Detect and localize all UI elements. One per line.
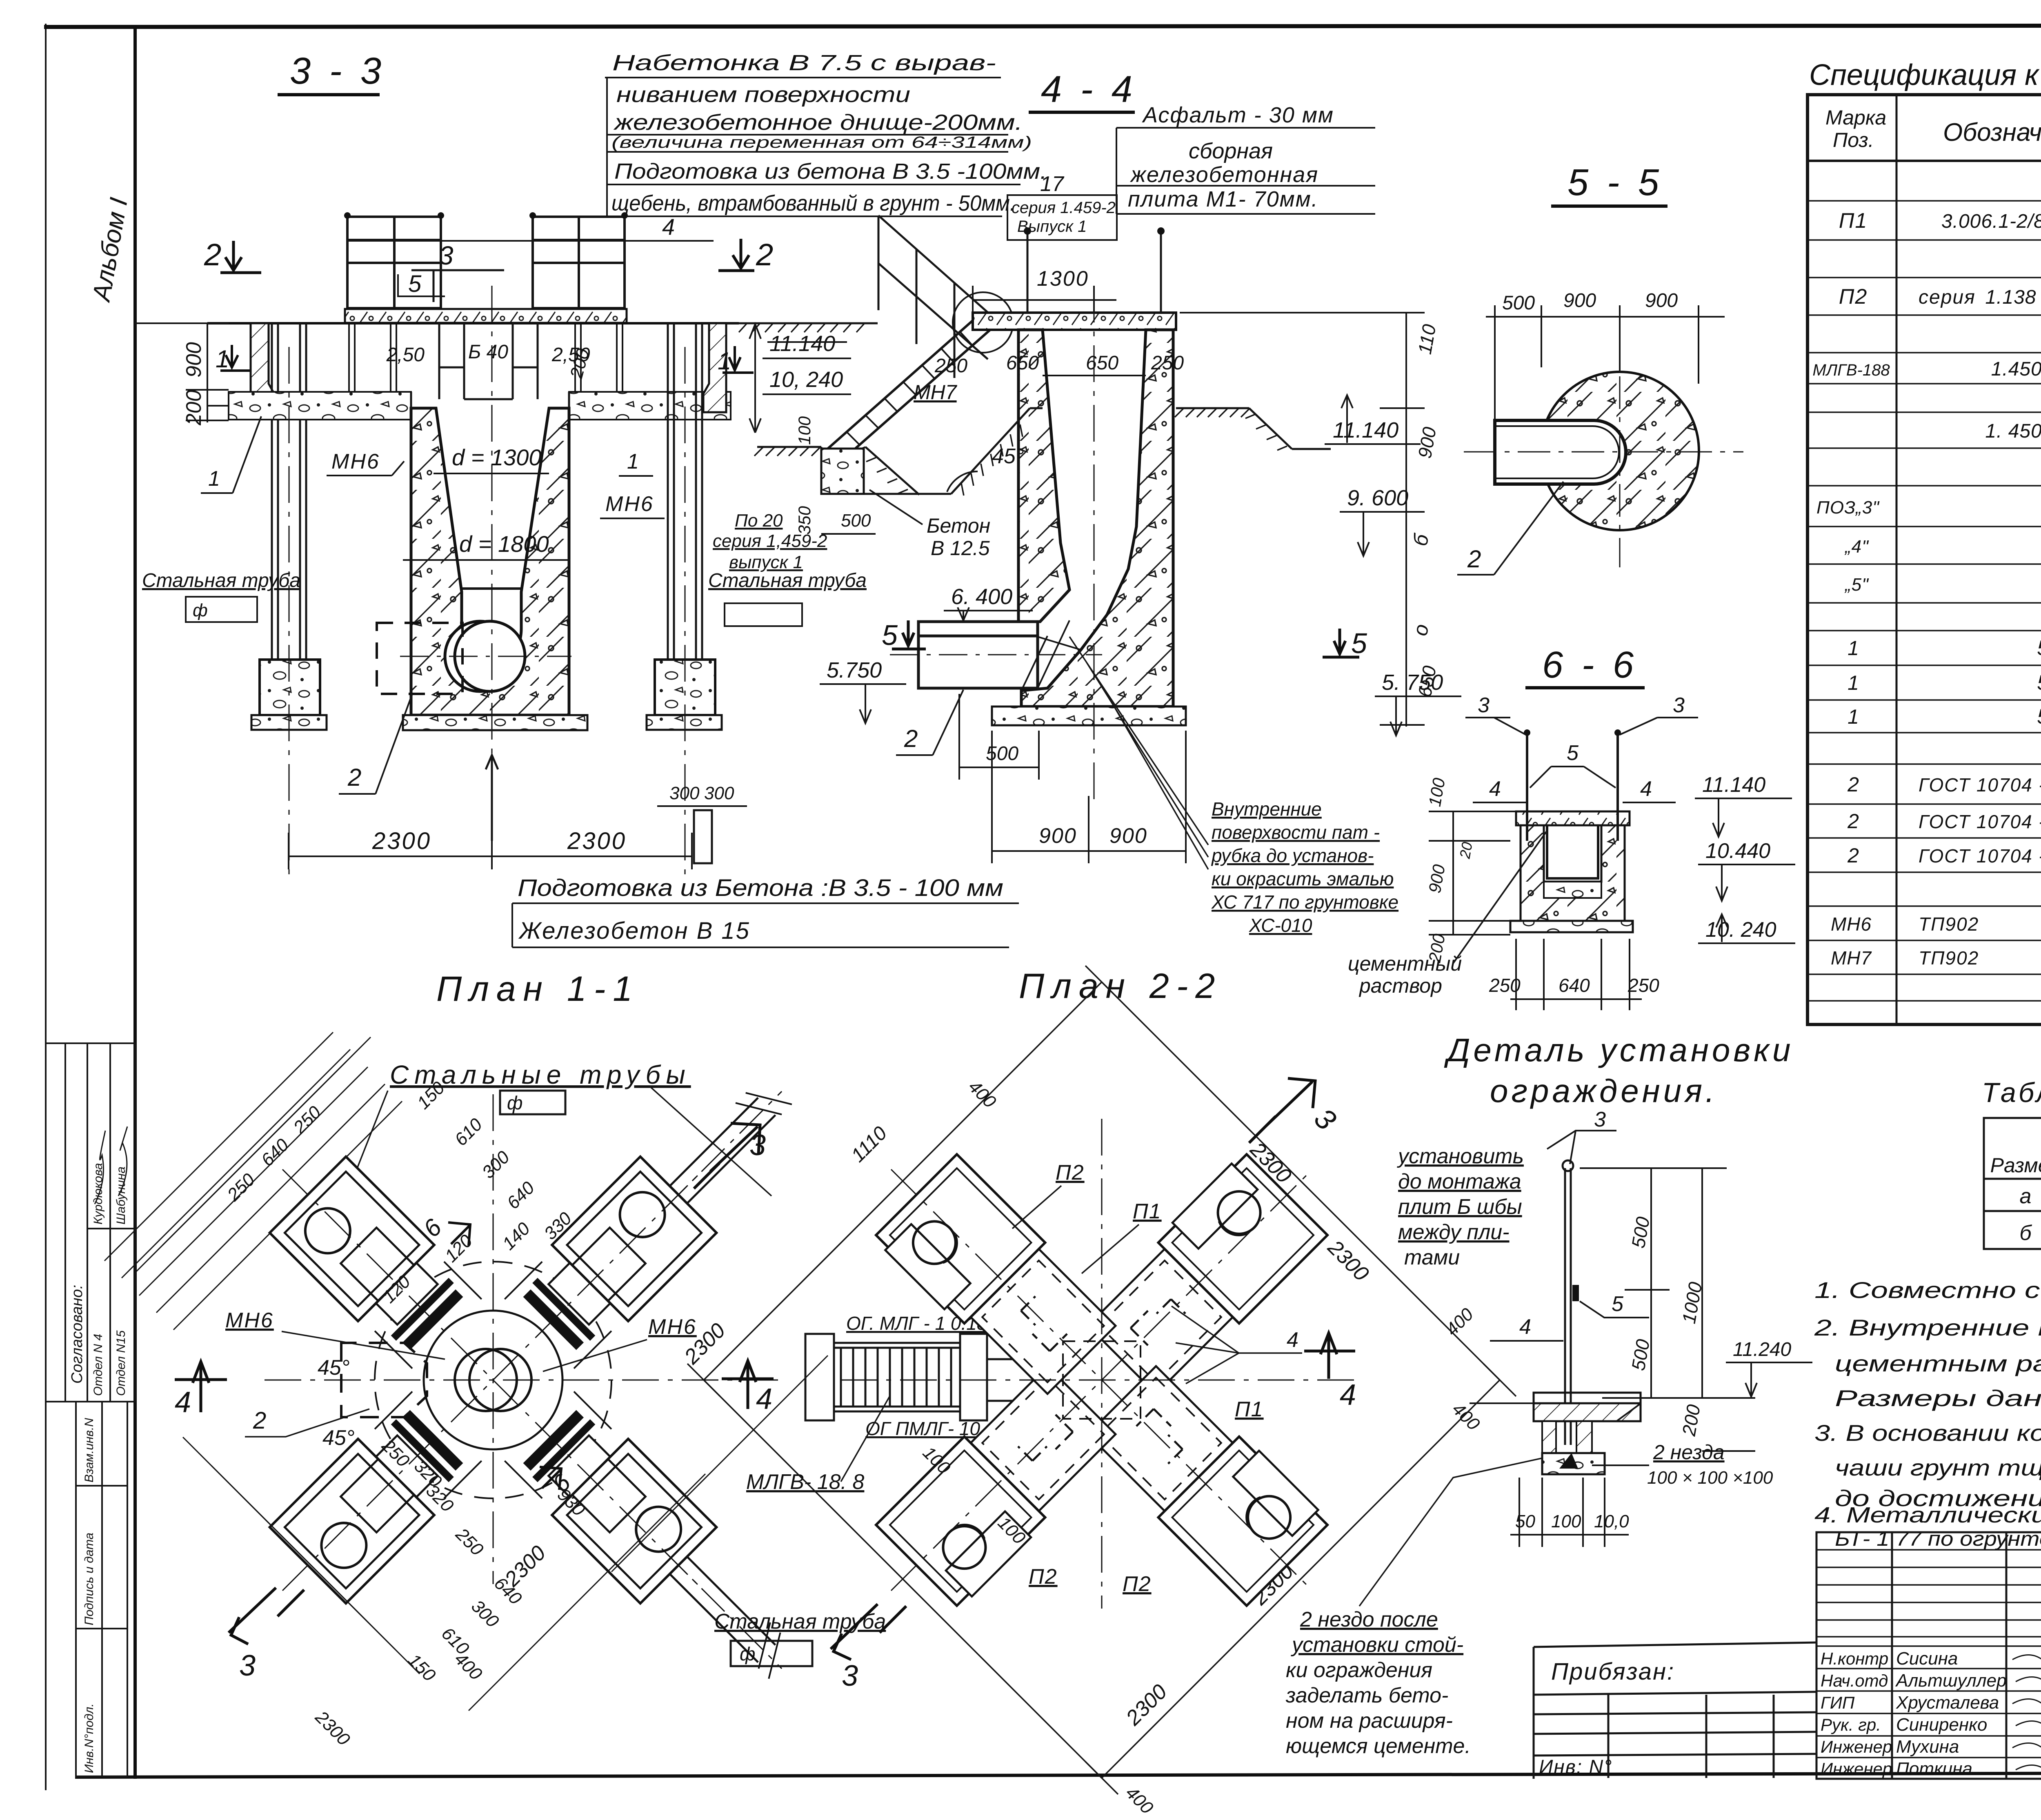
svg-text:„5": „5": [1844, 575, 1869, 595]
svg-text:2 нездо после: 2 нездо после: [1300, 1608, 1438, 1631]
svg-text:Обозначение: Обозначение: [1943, 118, 2041, 147]
fence lower block: [1542, 1421, 1556, 1453]
anchor rods below post boxes: [349, 323, 623, 393]
left pipe: [272, 323, 306, 691]
svg-text:250: 250: [1151, 352, 1184, 374]
svg-text:МН7: МН7: [914, 381, 958, 404]
svg-text:1: 1: [1848, 637, 1859, 660]
svg-text:Внутренние: Внутренние: [1212, 798, 1322, 820]
central opening in slab: [439, 323, 538, 399]
svg-text:Асфальт - 30 мм: Асфальт - 30 мм: [1142, 103, 1334, 127]
svg-text:П1: П1: [1839, 209, 1868, 233]
svg-text:б: б: [1409, 532, 1433, 548]
svg-text:цементным раствором сост: цементным раствором состава 1:2 толщиной…: [1835, 1351, 2041, 1376]
svg-text:П1: П1: [1133, 1200, 1162, 1223]
svg-text:ф: ф: [507, 1092, 522, 1113]
svg-text:3: 3: [1594, 1108, 1606, 1131]
inclined channel band: [828, 315, 991, 461]
svg-text:6 - 6: 6 - 6: [1542, 644, 1638, 686]
right railing post box: [533, 217, 625, 323]
spout axis: [890, 654, 1102, 656]
svg-text:1: 1: [1848, 705, 1859, 728]
svg-text:1300: 1300: [1037, 267, 1089, 291]
svg-text:500: 500: [1627, 1215, 1654, 1250]
5-5 hatched circle: [1541, 372, 1699, 530]
svg-text:2,50: 2,50: [386, 344, 425, 366]
svg-text:серия 1.459-2: серия 1.459-2: [1012, 199, 1116, 217]
svg-text:2: 2: [204, 238, 221, 272]
svg-text:250: 250: [934, 355, 967, 377]
svg-text:ХС-010: ХС-010: [1249, 915, 1312, 936]
svg-text:По 20: По 20: [735, 511, 783, 531]
svg-text:ф: ф: [740, 1643, 755, 1664]
svg-text:1: 1: [718, 347, 731, 375]
svg-text:Подготовка из бетона В 3.5: Подготовка из бетона В 3.5 -100мм.: [614, 159, 1047, 184]
top slab hatched band: [345, 309, 627, 323]
svg-text:Марка: Марка: [1825, 106, 1886, 129]
svg-text:5. 900 - 2: 5. 900 - 2: [2037, 636, 2041, 660]
svg-text:300: 300: [467, 1596, 503, 1631]
svg-text:Прибязан:: Прибязан:: [1551, 1658, 1675, 1685]
svg-text:ХС 717 по грунтовке: ХС 717 по грунтовке: [1211, 891, 1398, 913]
plan 1-1 dim fan NW: [0, 0, 1, 1]
svg-text:б: б: [2019, 1221, 2032, 1245]
svg-text:Сисина: Сисина: [1896, 1649, 1958, 1669]
svg-text:4: 4: [1287, 1328, 1298, 1352]
svg-text:ф: ф: [193, 600, 208, 620]
svg-text:400: 400: [965, 1076, 1000, 1112]
svg-text:4: 4: [662, 214, 675, 240]
svg-text:10.440: 10.440: [1705, 839, 1770, 863]
svg-text:ТП902: ТП902: [1919, 947, 1979, 969]
svg-text:11.140: 11.140: [769, 331, 835, 356]
center axis 4-4: [1094, 286, 1095, 800]
svg-text:ном на расширя-: ном на расширя-: [1286, 1709, 1453, 1733]
spec table grid: [1808, 95, 2041, 1024]
svg-text:200: 200: [182, 390, 206, 426]
svg-text:2: 2: [1847, 844, 1859, 867]
left outer wall hatched: [251, 323, 274, 412]
svg-text:d = 1800: d = 1800: [459, 531, 549, 557]
svg-text:610: 610: [451, 1114, 486, 1150]
svg-text:650: 650: [1086, 352, 1118, 374]
size table text: [1990, 1122, 2041, 1245]
svg-text:выпуск 1: выпуск 1: [729, 552, 803, 572]
svg-text:d = 1300: d = 1300: [452, 444, 542, 470]
svg-text:установки стой-: установки стой-: [1291, 1633, 1463, 1657]
left dims 900/200: [186, 323, 229, 422]
svg-text:5: 5: [1612, 1292, 1624, 1316]
svg-text:500: 500: [986, 743, 1018, 764]
svg-text:3. В основании консольных ко: 3. В основании консольных конструкций ра…: [1814, 1420, 2041, 1446]
svg-text:500: 500: [1627, 1338, 1654, 1372]
svg-text:250: 250: [289, 1102, 325, 1138]
ground left with pit: [757, 408, 1043, 495]
svg-text:ГОСТ 10704 - 76 *: ГОСТ 10704 - 76 *: [1919, 811, 2041, 832]
svg-text:Альтшуллер: Альтшуллер: [1895, 1671, 2007, 1691]
svg-text:4 - 4: 4 - 4: [1041, 69, 1136, 110]
plan 1-1 arms: [501, 1157, 717, 1372]
under-slab strip left: [229, 392, 411, 420]
svg-text:Инженер: Инженер: [1821, 1737, 1892, 1756]
svg-text:Хрусталева: Хрусталева: [1896, 1693, 1999, 1713]
svg-text:План 2-2: План 2-2: [1019, 967, 1222, 1006]
diagonal axes plan 2-2: [891, 1169, 1312, 1591]
top notes block with underlines: [611, 51, 1047, 216]
stamp table 2: [76, 1402, 127, 1776]
svg-text:Поз.: Поз.: [1833, 129, 1874, 151]
svg-text:ющемся цементе.: ющемся цементе.: [1286, 1734, 1471, 1758]
svg-text:4: 4: [1640, 777, 1652, 801]
svg-text:900: 900: [1645, 290, 1678, 311]
plan 2-2 center cross dashes: [840, 1119, 1363, 1609]
svg-text:5: 5: [1567, 741, 1579, 765]
svg-text:2300: 2300: [372, 828, 431, 854]
svg-text:2: 2: [1847, 810, 1859, 833]
bottom flange: [1510, 921, 1633, 932]
pipe circles: [445, 621, 515, 691]
railing posts on slab: [1027, 233, 1161, 313]
right pipe: [668, 323, 702, 691]
posts: [1527, 735, 1618, 841]
plan 2-2 arms: [1078, 1151, 1327, 1400]
svg-text:а: а: [2020, 1184, 2032, 1208]
svg-text:Набетонка В 7.5 с вырав-: Набетонка В 7.5 с вырав-: [612, 51, 996, 75]
svg-text:400: 400: [1122, 1782, 1157, 1818]
MN7 detail circle: [953, 292, 1013, 353]
fence dims right: [1580, 1168, 1755, 1451]
svg-text:установить: установить: [1397, 1144, 1524, 1168]
interior bottom strip: [1544, 882, 1601, 898]
size table grid: [1984, 1118, 2041, 1249]
svg-text:900: 900: [1109, 824, 1147, 848]
svg-text:между пли-: между пли-: [1398, 1220, 1510, 1244]
funnel hatched mass: [411, 408, 569, 715]
left railing post box: [347, 217, 441, 323]
svg-text:5 - 5: 5 - 5: [1567, 162, 1663, 203]
svg-text:300: 300: [669, 783, 700, 803]
svg-text:МН7: МН7: [1831, 947, 1872, 969]
center axis: [491, 286, 493, 841]
right dim chain: [1180, 313, 1425, 727]
svg-text:ГОСТ 10704 - 76 *: ГОСТ 10704 - 76 *: [1919, 774, 2041, 796]
svg-text:1. 450. 3-3 вып.1: 1. 450. 3-3 вып.1: [1985, 420, 2041, 442]
bottom border: [75, 1772, 2041, 1777]
svg-text:БТ- 1 77 по огрунтовке: БТ- 1 77 по огрунтовке: [1835, 1527, 2041, 1550]
svg-text:640: 640: [503, 1178, 538, 1213]
svg-text:1110: 1110: [847, 1122, 891, 1167]
svg-text:5: 5: [408, 271, 422, 297]
svg-text:(величина переменная от 64÷31: (величина переменная от 64÷314мм): [611, 133, 1032, 151]
svg-text:П2: П2: [1029, 1565, 1058, 1589]
svg-text:раствор: раствор: [1358, 974, 1442, 997]
svg-text:Рук. гр.: Рук. гр.: [1821, 1715, 1881, 1734]
base plate: [992, 707, 1186, 725]
ground lines between sections: [726, 322, 878, 324]
svg-text:ки ограждения: ки ограждения: [1286, 1658, 1432, 1682]
svg-text:2: 2: [756, 238, 773, 272]
svg-text:4: 4: [1519, 1315, 1531, 1339]
svg-text:300: 300: [478, 1147, 514, 1182]
walls: [1521, 825, 1625, 921]
svg-text:ТП902: ТП902: [1919, 913, 1979, 935]
svg-text:4. Металлические конструкци: 4. Металлические конструкции окрасить за…: [1814, 1503, 2041, 1527]
svg-text:П1: П1: [1235, 1398, 1264, 1421]
svg-text:900: 900: [1425, 863, 1449, 895]
svg-text:1: 1: [208, 467, 220, 491]
interior horizontal at pipe niche: [462, 587, 521, 590]
svg-text:Таблица размеров: Таблица размеров: [1982, 1077, 2041, 1108]
svg-text:500: 500: [841, 511, 871, 531]
walls hatched mass: [1018, 330, 1069, 622]
svg-text:до монтажа: до монтажа: [1398, 1170, 1521, 1193]
svg-text:цементный: цементный: [1348, 952, 1462, 975]
svg-text:железобетонное днище-200мм.: железобетонное днище-200мм.: [614, 110, 1023, 135]
svg-text:100: 100: [1425, 776, 1449, 808]
svg-text:2300: 2300: [1323, 1236, 1374, 1286]
svg-text:Б 40: Б 40: [468, 341, 508, 363]
svg-text:4: 4: [1489, 777, 1501, 801]
svg-text:11.240: 11.240: [1733, 1339, 1792, 1360]
svg-text:120: 120: [441, 1231, 476, 1266]
inner frame left vertical: [133, 25, 137, 1779]
base plate under funnel: [403, 715, 587, 730]
svg-text:4: 4: [1340, 1379, 1356, 1411]
svg-text:20: 20: [1456, 841, 1476, 860]
svg-text:3 - 3: 3 - 3: [290, 50, 385, 92]
svg-text:9. 600: 9. 600: [1347, 486, 1408, 510]
svg-text:1.138 -10, вып. 2: 1.138 -10, вып. 2: [1985, 287, 2041, 308]
fence post: [1565, 1168, 1571, 1445]
dashed incoming pipe: [377, 623, 462, 694]
5-5 pipe U: [1495, 420, 1626, 484]
svg-text:2 незда: 2 незда: [1653, 1441, 1725, 1464]
svg-text:2: 2: [1847, 773, 1859, 796]
svg-text:2: 2: [1467, 545, 1481, 573]
svg-text:2: 2: [347, 764, 361, 791]
svg-text:2: 2: [253, 1407, 266, 1434]
svg-text:2. Внутренние поверхности: 2. Внутренние поверхности лотков штукату…: [1814, 1315, 2041, 1340]
svg-text:П2: П2: [1839, 285, 1868, 309]
svg-text:400: 400: [1442, 1304, 1477, 1340]
svg-text:МН6: МН6: [648, 1315, 697, 1339]
svg-text:2300: 2300: [311, 1707, 354, 1750]
svg-text:Отдел N 4: Отдел N 4: [91, 1334, 105, 1396]
pit block: [821, 449, 864, 494]
svg-text:5. 750: 5. 750: [1382, 670, 1443, 695]
plan 1-1 center rings: [265, 1094, 779, 1584]
plan 2-2 diamond dim frame: [687, 966, 1516, 1794]
svg-text:П2: П2: [1056, 1161, 1085, 1184]
pribyazan table: [1534, 1642, 1816, 1779]
svg-text:МН6: МН6: [225, 1309, 274, 1332]
svg-text:45°: 45°: [318, 1356, 350, 1380]
svg-text:11.140: 11.140: [1702, 773, 1765, 797]
svg-text:Альбом I: Альбом I: [87, 196, 133, 304]
svg-text:10,0: 10,0: [1594, 1511, 1629, 1531]
left rotated dims: [1429, 811, 1516, 935]
svg-text:45°: 45°: [992, 444, 1024, 468]
svg-text:Инв.N°подл.: Инв.N°подл.: [82, 1703, 96, 1773]
arrow under base: [486, 755, 498, 841]
svg-text:тами: тами: [1404, 1246, 1460, 1269]
svg-text:45°: 45°: [322, 1426, 355, 1450]
svg-text:Размеры даны б железобе: Размеры даны б железобетоне .: [1835, 1385, 2041, 1411]
svg-text:рубка до установ-: рубка до установ-: [1211, 845, 1374, 866]
svg-text:Инженер: Инженер: [1821, 1759, 1892, 1778]
dim 4 line over posts: [347, 240, 714, 242]
MLGV ladder (west arm of plan 2-2): [805, 1334, 987, 1420]
svg-text:ки окрасить эмалью: ки окрасить эмалью: [1212, 868, 1394, 889]
svg-text:150: 150: [404, 1650, 440, 1685]
svg-text:5. 900 - 2: 5. 900 - 2: [2037, 671, 2041, 695]
svg-text:Поткина: Поткина: [1896, 1759, 1972, 1779]
po20 seriya note: [713, 511, 827, 572]
right pipe pad: [655, 660, 715, 715]
svg-text:плит Б шбы: плит Б шбы: [1398, 1195, 1522, 1219]
right outer wall hatched: [703, 323, 726, 412]
plan 1-1 pipe extensions NE/SE: [646, 1074, 794, 1221]
svg-text:„4": „4": [1844, 537, 1869, 557]
svg-text:Инв: N°: Инв: N°: [1539, 1756, 1612, 1778]
svg-text:250: 250: [451, 1524, 487, 1560]
svg-text:3: 3: [1673, 693, 1685, 717]
5-5 axes: [1464, 451, 1743, 453]
svg-text:сборная: сборная: [1189, 139, 1273, 163]
spout: [918, 590, 1069, 688]
svg-text:плита М1- 70мм.: плита М1- 70мм.: [1128, 187, 1318, 211]
svg-text:Согласовано:: Согласовано:: [69, 1285, 86, 1384]
plan 1-1 dashed chamber W: [341, 1343, 427, 1417]
left pipe pad: [260, 660, 320, 715]
svg-text:5. 900 - 2: 5. 900 - 2: [2037, 705, 2041, 729]
svg-text:железобетонная: железобетонная: [1130, 162, 1318, 187]
svg-text:ГИП: ГИП: [1821, 1693, 1855, 1712]
svg-text:Стальная труба: Стальная труба: [708, 570, 867, 591]
svg-text:4: 4: [175, 1386, 191, 1419]
ground line: [207, 322, 739, 324]
svg-text:100: 100: [1551, 1511, 1581, 1531]
svg-text:Деталь установки: Деталь установки: [1444, 1032, 1794, 1068]
svg-text:100 × 100 ×100: 100 × 100 ×100: [1647, 1468, 1773, 1488]
svg-text:чаши грунт тщательно уплотн: чаши грунт тщательно уплотнить слоями 15…: [1835, 1455, 2041, 1480]
svg-text:10. 240: 10. 240: [1705, 918, 1776, 942]
svg-text:1.450.3-3 вып. 2: 1.450.3-3 вып. 2: [1991, 358, 2041, 380]
inner liner: [1547, 825, 1598, 878]
svg-text:П2: П2: [1123, 1572, 1152, 1596]
svg-text:500: 500: [1502, 292, 1535, 314]
slab band 4-4: [973, 313, 1176, 330]
top flange: [1516, 811, 1630, 825]
svg-text:поверхвости пат -: поверхвости пат -: [1212, 822, 1380, 843]
svg-text:Железобетон В 15: Железобетон В 15: [518, 918, 750, 944]
svg-text:100: 100: [795, 416, 814, 445]
svg-text:Бетон: Бетон: [927, 514, 990, 537]
svg-text:Стальная труба: Стальная труба: [142, 570, 300, 591]
fence slab: [1534, 1393, 1641, 1403]
svg-text:250: 250: [223, 1169, 259, 1205]
svg-text:3: 3: [239, 1649, 256, 1682]
svg-text:Подпись и дата: Подпись и дата: [82, 1533, 96, 1625]
svg-text:640: 640: [1559, 975, 1590, 996]
svg-text:Нач.отд: Нач.отд: [1821, 1671, 1888, 1690]
svg-text:щебень, втрамбованный в грунт: щебень, втрамбованный в грунт - 50мм.: [611, 191, 1016, 216]
svg-text:В 12.5: В 12.5: [931, 537, 990, 560]
svg-text:6. 400: 6. 400: [951, 584, 1012, 609]
svg-text:900: 900: [1414, 425, 1441, 460]
svg-text:50: 50: [1515, 1511, 1535, 1531]
top border: [44, 25, 2041, 27]
svg-text:1: 1: [1848, 671, 1859, 694]
5-5 dims: [1486, 305, 1725, 420]
svg-text:План 1-1: План 1-1: [436, 969, 640, 1009]
svg-text:ГОСТ 10704 - 76 *: ГОСТ 10704 - 76 *: [1919, 845, 2041, 867]
railing above channel: [878, 216, 990, 378]
vnutrennie text block: [1211, 798, 1398, 936]
svg-text:400: 400: [1448, 1399, 1484, 1434]
svg-text:5: 5: [1351, 627, 1367, 659]
svg-text:110: 110: [1414, 322, 1440, 356]
svg-text:МН6: МН6: [1831, 913, 1872, 935]
svg-text:Мухина: Мухина: [1896, 1737, 1959, 1757]
plan 1-1 dim lines SW/NE: [134, 1037, 828, 1711]
svg-text:11.140: 11.140: [1333, 418, 1398, 442]
svg-text:3.006.1-2/82 вып.1. 2: 3.006.1-2/82 вып.1. 2: [1941, 211, 2041, 232]
spec table header: [1825, 105, 2041, 151]
svg-text:1. Совместно с данным смо: 1. Совместно с данным смотрите листы КЖ …: [1814, 1277, 2041, 1303]
section mark 4 right: [1304, 1333, 1355, 1379]
svg-text:Н.контр: Н.контр: [1821, 1649, 1888, 1668]
svg-text:серия: серия: [1919, 287, 1976, 308]
svg-text:140: 140: [498, 1218, 534, 1254]
svg-text:2300: 2300: [1121, 1680, 1172, 1731]
svg-text:Синиренко: Синиренко: [1896, 1715, 1987, 1735]
under-slab strip right: [569, 392, 731, 420]
svg-text:ограждения.: ограждения.: [1490, 1073, 1718, 1109]
gnezdo note under plan 2-2: [1285, 1608, 1471, 1758]
svg-text:заделать бето-: заделать бето-: [1285, 1684, 1448, 1707]
svg-text:17: 17: [1040, 172, 1065, 196]
svg-text:5.750: 5.750: [827, 658, 882, 682]
diagonal axes plan 1-1: [282, 1169, 704, 1591]
fence install note: [1397, 1144, 1524, 1269]
svg-text:350: 350: [795, 506, 814, 535]
svg-text:900: 900: [1563, 290, 1596, 311]
svg-text:10, 240: 10, 240: [769, 367, 843, 392]
svg-text:2300: 2300: [567, 828, 627, 854]
svg-text:2: 2: [904, 725, 918, 752]
svg-text:МН6: МН6: [331, 450, 380, 473]
svg-text:Отдел N15: Отдел N15: [114, 1330, 128, 1396]
svg-text:Размер: Размер: [1990, 1154, 2041, 1177]
svg-text:о: о: [1409, 622, 1433, 638]
svg-text:640: 640: [257, 1135, 293, 1170]
svg-text:Подготовка из Бетона :В 3.: Подготовка из Бетона :В 3.5 - 100 мм: [518, 875, 1003, 901]
svg-text:650: 650: [1006, 352, 1039, 374]
svg-text:1: 1: [627, 450, 639, 473]
svg-text:3: 3: [1478, 693, 1490, 717]
circle centerline: [400, 656, 571, 657]
svg-text:5: 5: [882, 619, 898, 651]
plan 2-2 west arm corridor: [987, 1359, 1064, 1401]
svg-text:300: 300: [704, 783, 734, 803]
signers stamp table: [1816, 1532, 2041, 1779]
svg-text:4: 4: [756, 1383, 772, 1416]
small rect lower right: [694, 810, 712, 863]
svg-text:Взам.инв.N: Взам.инв.N: [82, 1418, 96, 1482]
svg-text:3: 3: [842, 1660, 858, 1692]
svg-text:900: 900: [182, 342, 206, 378]
